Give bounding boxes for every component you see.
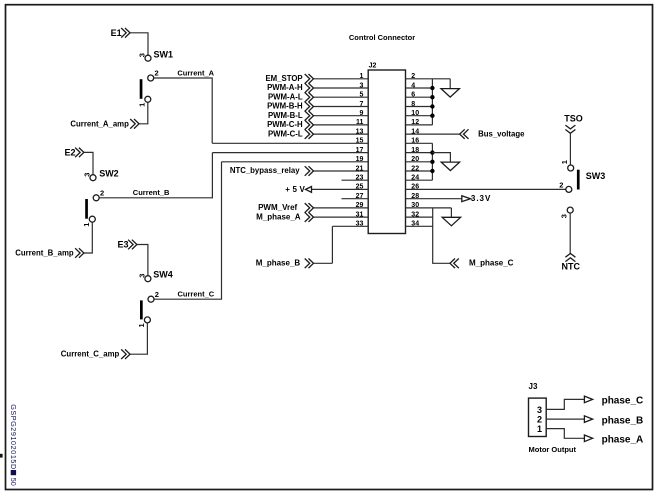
svg-text:8: 8 [411, 101, 415, 108]
J2 pin 4 [406, 82, 433, 89]
svg-text:13: 13 [356, 128, 364, 135]
svg-text:Current_C: Current_C [178, 289, 215, 298]
junction dots pins 18-22 [430, 150, 434, 173]
svg-text:2: 2 [411, 73, 415, 80]
svg-text:4: 4 [411, 82, 415, 89]
svg-text:Current_B_amp: Current_B_amp [15, 249, 74, 258]
svg-text:SW3: SW3 [586, 171, 606, 181]
svg-text:M_phase_B: M_phase_B [256, 259, 301, 268]
J2 pin 30 [406, 202, 452, 209]
connector E1 [111, 28, 130, 38]
svg-text:J2: J2 [369, 63, 377, 70]
J2 pin 33 [332, 221, 368, 228]
J2 pin 29 [258, 202, 368, 213]
svg-text:5: 5 [359, 92, 363, 99]
switch SW2 [85, 168, 119, 222]
node M_phase_B [256, 226, 333, 268]
svg-text:10: 10 [411, 110, 419, 117]
J2 pin 14 [406, 128, 526, 139]
J2 pin 31 [256, 211, 368, 222]
svg-text:M_phase_C: M_phase_C [469, 259, 514, 268]
wire Current_C net [154, 162, 222, 299]
svg-text:PWM_Vref: PWM_Vref [258, 203, 297, 212]
node TSO [564, 114, 583, 134]
svg-text:E3: E3 [117, 240, 128, 250]
svg-text:3: 3 [138, 53, 147, 57]
wire E1 to SW1 pin 3 [130, 33, 148, 55]
wire ground bus pins 16-24 [431, 143, 433, 180]
node Current_A_amp [70, 119, 139, 129]
J2 pin 34 [406, 221, 433, 228]
svg-text:24: 24 [411, 175, 419, 182]
svg-text:NTC: NTC [562, 262, 581, 272]
J2 pin 16 [406, 138, 433, 145]
svg-text:29: 29 [356, 202, 364, 209]
svg-text:Bus_voltage: Bus_voltage [478, 129, 525, 138]
svg-text:phase_C: phase_C [602, 396, 644, 407]
wire SW2 pin 1 to amp [84, 222, 92, 253]
svg-text:50: 50 [9, 478, 18, 486]
J2 pin 26 [406, 184, 567, 191]
svg-text:phase_B: phase_B [602, 415, 644, 426]
svg-text:PWM-B-L: PWM-B-L [268, 111, 303, 120]
connector J3 [529, 382, 547, 437]
svg-text:14: 14 [411, 128, 419, 135]
svg-text:GSPG29102015D: GSPG29102015D [9, 404, 18, 469]
svg-text:Control Connector: Control Connector [349, 33, 415, 42]
J2 pin 17 [212, 147, 368, 154]
J2 pin 6 [406, 92, 433, 99]
svg-text:1: 1 [137, 323, 146, 327]
svg-text:3: 3 [559, 214, 568, 218]
J2 pin 3 [267, 82, 368, 93]
J2 pin 5 [268, 92, 368, 103]
J2 pin 23 [342, 175, 369, 182]
J2 pin 28 [406, 193, 491, 203]
J2 pin 32 [406, 211, 433, 218]
svg-text:17: 17 [356, 147, 364, 154]
wire E2 to SW2 pin 3 [84, 152, 93, 174]
J2 pin 10 [406, 110, 433, 117]
svg-text:2: 2 [155, 69, 159, 78]
J2 pin 27 [342, 193, 369, 200]
svg-text:25: 25 [356, 184, 364, 191]
svg-text:20: 20 [411, 156, 419, 163]
svg-text:6: 6 [411, 92, 415, 99]
svg-text:31: 31 [356, 211, 364, 218]
svg-text:PWM-C-H: PWM-C-H [267, 120, 303, 129]
J2 pin 25 [285, 184, 368, 194]
svg-text:SW1: SW1 [154, 49, 174, 59]
svg-text:1: 1 [137, 103, 146, 107]
svg-text:1: 1 [359, 73, 363, 80]
J2 pin 8 [406, 101, 433, 108]
J2 pin 13 [268, 128, 368, 139]
node phase_B [584, 415, 643, 426]
svg-text:E2: E2 [64, 147, 75, 157]
J2 pin 24 [406, 175, 433, 182]
svg-text:1: 1 [82, 223, 91, 227]
svg-text:19: 19 [356, 156, 364, 163]
wire J3 pin 3 to phase_C [546, 399, 584, 409]
svg-text:34: 34 [411, 221, 419, 228]
svg-text:NTC_bypass_relay: NTC_bypass_relay [230, 166, 300, 175]
plot stamp text [9, 404, 18, 486]
svg-text:3: 3 [138, 274, 147, 278]
svg-text:9: 9 [359, 110, 363, 117]
J2 pin 20 [406, 156, 433, 163]
svg-text:Current_B: Current_B [133, 188, 170, 197]
svg-text:11: 11 [356, 119, 364, 126]
ground symbol G1 [441, 79, 459, 97]
svg-text:26: 26 [411, 184, 419, 191]
svg-text:1: 1 [537, 424, 542, 434]
svg-text:phase_A: phase_A [602, 435, 644, 446]
svg-text:Current_A_amp: Current_A_amp [70, 119, 129, 128]
J2 pin 18 [406, 147, 433, 154]
svg-text:3: 3 [83, 173, 92, 177]
switch SW1 [140, 49, 173, 102]
wire J3 pin 2 to phase_B [546, 418, 584, 420]
ground symbol G2 [432, 153, 459, 171]
svg-text:27: 27 [356, 193, 364, 200]
svg-text:2: 2 [100, 188, 104, 197]
J2 pin 15 [212, 138, 368, 145]
node Current_C_amp [61, 349, 130, 359]
svg-text:PWM-C-L: PWM-C-L [268, 129, 303, 138]
svg-text:PWM-B-H: PWM-B-H [267, 102, 303, 111]
wire Current_A net [154, 68, 215, 143]
svg-text:15: 15 [356, 138, 364, 145]
svg-text:1: 1 [560, 160, 569, 164]
svg-text:SW4: SW4 [153, 270, 173, 280]
plot edge tick mark [0, 454, 3, 458]
wire SW1 pin 1 to amp [139, 102, 148, 124]
wire ground bus pins 2-12 [431, 79, 433, 125]
wire Current_B net [99, 153, 212, 198]
ground symbol G3 [442, 208, 460, 226]
connector E3 [117, 240, 136, 250]
svg-text:SW2: SW2 [99, 168, 119, 178]
svg-text:23: 23 [356, 175, 364, 182]
node phase_C [584, 396, 643, 407]
J2 pin 2 [406, 73, 451, 80]
svg-text:Current_C_amp: Current_C_amp [61, 350, 120, 359]
switch SW3 [566, 165, 606, 213]
svg-text:J3: J3 [529, 382, 538, 391]
J2 pin 1 [265, 73, 368, 84]
svg-text:Motor Output: Motor Output [529, 445, 577, 454]
svg-text:21: 21 [356, 165, 364, 172]
svg-text:32: 32 [411, 211, 419, 218]
svg-text:2: 2 [155, 290, 159, 299]
J2 pin 7 [267, 101, 368, 112]
svg-text:12: 12 [411, 119, 419, 126]
svg-text:2: 2 [559, 180, 563, 189]
J2 pin 21 [230, 165, 368, 176]
svg-text:E1: E1 [111, 28, 122, 38]
svg-text:30: 30 [411, 202, 419, 209]
J2 pin 9 [268, 110, 368, 121]
wire SW3 pin 3 to NTC [569, 213, 571, 254]
wire J3 pin 1 to phase_A [546, 429, 584, 439]
svg-text:18: 18 [411, 147, 419, 154]
svg-text:33: 33 [356, 221, 364, 228]
svg-text:PWM-A-H: PWM-A-H [267, 83, 303, 92]
junction dots pins 4-10 [430, 86, 434, 118]
node M_phase_C [450, 259, 514, 269]
J2 pin 12 [406, 119, 433, 126]
wire ground bus pins 30-34 to M_phase_C [433, 208, 450, 263]
node phase_A [584, 435, 643, 446]
J2 pin 11 [267, 119, 368, 130]
svg-text:TSO: TSO [564, 114, 583, 124]
connector J2 [368, 63, 405, 234]
svg-text:Current_A: Current_A [177, 68, 214, 77]
svg-text:+5V: +5V [285, 185, 305, 194]
wire TSO to SW3 pin 1 [569, 133, 571, 165]
svg-text:EM_STOP: EM_STOP [265, 74, 302, 83]
svg-text:28: 28 [411, 193, 419, 200]
svg-text:3.3V: 3.3V [471, 194, 491, 203]
svg-text:3: 3 [359, 82, 363, 89]
node Current_B_amp [15, 248, 84, 258]
svg-text:PWM-A-L: PWM-A-L [268, 92, 303, 101]
wire E3 to SW4 pin 3 [137, 245, 148, 276]
svg-text:M_phase_A: M_phase_A [256, 212, 301, 221]
J2 pin 19 [222, 156, 369, 163]
J2 pin 22 [406, 165, 433, 172]
wire SW4 pin 1 to amp [130, 323, 147, 354]
svg-text:7: 7 [359, 101, 363, 108]
connector E2 [64, 147, 83, 157]
svg-text:16: 16 [411, 138, 419, 145]
switch SW4 [140, 270, 173, 323]
node NTC [562, 253, 581, 271]
svg-text:22: 22 [411, 165, 419, 172]
